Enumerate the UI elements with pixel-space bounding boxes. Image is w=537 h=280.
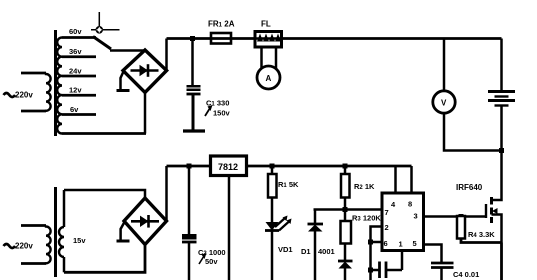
battery B (cells) (488, 92, 515, 106)
svg-text:4001: 4001 (318, 247, 335, 256)
transformer T2 core (54, 187, 57, 277)
wire battery to MOSFET drain (492, 106, 502, 201)
bridge B2 AC terminal (T bar) (117, 222, 130, 241)
wire FL to ammeter right (275, 47, 278, 68)
lower rail 7812 input (167, 165, 211, 168)
junction C1/top rail (190, 36, 195, 41)
transformer T1 secondary winding arcs (57, 38, 62, 134)
wire B2 right corner to lower rail (165, 166, 168, 221)
lower rail 7812 output (247, 165, 412, 168)
wire FL to ammeter left (260, 47, 263, 68)
wire VD2 down (314, 232, 317, 280)
svg-text:R4 3.3K: R4 3.3K (468, 230, 495, 239)
resistor R3 (341, 221, 352, 244)
label ~220v (T2 primary) (4, 244, 16, 248)
svg-text:R2 1K: R2 1K (354, 182, 375, 191)
label 50v with polarity arrow (199, 253, 207, 264)
wire pin5 to C4 (424, 245, 442, 264)
T1 tap 36v (62, 55, 96, 58)
wire pin1 down (401, 251, 404, 271)
wire rail to R1 (271, 166, 274, 174)
bridge rectifier B2 diamond (124, 198, 167, 245)
junction R1/rail (270, 164, 275, 169)
svg-text:V: V (441, 99, 447, 108)
switch S1 wiper arm (93, 37, 111, 50)
svg-text:36v: 36v (69, 47, 82, 56)
svg-text:5: 5 (413, 239, 417, 248)
svg-text:220v: 220v (15, 91, 33, 100)
LED VD1 (265, 216, 292, 231)
junction pin6/pin2 wire (368, 240, 373, 245)
junction C3/pin2 wire (368, 268, 373, 273)
wire T2 secondary top to bridge B2 (64, 190, 145, 198)
wire pin7 to VD2 column (314, 210, 317, 225)
IC U1 555 box (382, 193, 424, 251)
resistor R4 (457, 216, 465, 239)
svg-text:50v: 50v (205, 257, 218, 266)
junction battery/voltmeter wire (499, 148, 504, 153)
svg-text:60v: 60v (69, 27, 82, 36)
svg-text:6v: 6v (70, 105, 79, 114)
shunt FL box with zigzag (255, 32, 282, 48)
wire top positive rail (167, 37, 502, 40)
svg-text:6: 6 (384, 239, 388, 248)
bridge B2 internal diode (131, 215, 159, 228)
svg-text:7: 7 (385, 208, 389, 217)
svg-text:VD1: VD1 (278, 245, 293, 254)
transformer T1 primary winding (21, 73, 51, 111)
wire 7812 ground pin (228, 176, 231, 280)
svg-text:R3 120K: R3 120K (352, 214, 381, 223)
junction R2/R3/pin7 (343, 207, 348, 212)
wire pin4 to Vcc rail (394, 166, 397, 193)
svg-text:FL: FL (261, 20, 271, 29)
svg-text:R1 5K: R1 5K (278, 180, 299, 189)
capacitor C2 (electrolytic) (182, 234, 197, 280)
svg-text:A: A (266, 74, 272, 83)
svg-text:12v: 12v (69, 86, 82, 95)
svg-text:C2 1000: C2 1000 (198, 248, 226, 257)
bridge rectifier B1 diamond (123, 50, 167, 93)
T1 tap 12v (62, 94, 96, 97)
wire source down (500, 243, 503, 280)
transformer T2 secondary winding (59, 190, 64, 272)
junction R2/rail (343, 164, 348, 169)
svg-text:1: 1 (399, 240, 403, 249)
bridge B1 AC terminal (T bar) (117, 72, 130, 91)
junction C2/input rail (187, 164, 192, 169)
label ~220v (T1 primary) (4, 93, 16, 97)
regulator 7812 box (211, 156, 247, 176)
resistor R1 (268, 174, 277, 198)
wire top rail to voltmeter (443, 39, 446, 92)
svg-text:2: 2 (385, 223, 389, 232)
bridge B1 internal diode (131, 64, 159, 77)
MOSFET Q1 IRF640 (486, 197, 502, 243)
wire R4 bottom to source (461, 239, 502, 243)
T1 tap 6v (62, 113, 96, 116)
resistor R2 (341, 174, 350, 198)
ammeter A (257, 66, 280, 89)
wire top rail to battery (500, 39, 503, 92)
wire rail to R2 (344, 166, 347, 174)
wire VD1 down (271, 231, 274, 280)
svg-text:FR1 2A: FR1 2A (208, 20, 235, 29)
capacitor C3 (371, 262, 403, 279)
svg-text:8: 8 (408, 200, 412, 209)
wire R3 to D1 (344, 244, 347, 262)
junction R4/gate wire (459, 214, 464, 219)
voltmeter V (433, 91, 455, 113)
wire pin6 (371, 241, 383, 244)
wire T2 bottom to bridge B2 (64, 245, 145, 273)
capacitor C1 (electrolytic) (183, 85, 205, 131)
wire D1 down (344, 269, 347, 280)
fuse FR1 (211, 33, 231, 44)
wire R2 to junction (344, 198, 347, 222)
svg-text:150v: 150v (213, 109, 231, 118)
wire B1 right corner to top rail (165, 39, 168, 71)
wire B1 bottom corner to bottom rail (144, 93, 147, 134)
svg-text:24v: 24v (69, 67, 82, 76)
wire top rail to C1 (191, 39, 194, 86)
wire pin7 (314, 208, 383, 211)
transformer T1 core (54, 30, 57, 136)
wire voltmeter to battery bottom (444, 113, 502, 151)
label 150v with polarity arrow (205, 105, 213, 116)
svg-text:3: 3 (414, 212, 418, 221)
svg-text:220v: 220v (15, 242, 33, 251)
transformer T2 primary winding (21, 226, 51, 264)
wire pin2 (371, 227, 383, 280)
T1 tap 60v (62, 36, 96, 39)
capacitor C4 (431, 263, 454, 280)
wire switch to bridge B1 top (110, 49, 145, 52)
svg-text:C4 0.01: C4 0.01 (453, 270, 479, 279)
wire R1 to VD1 (271, 198, 274, 223)
diode VD2 (308, 224, 324, 232)
svg-text:IRF640: IRF640 (456, 183, 483, 192)
wire T1 bottom rail (62, 132, 146, 135)
T1 tap 24v (62, 75, 96, 78)
svg-text:15v: 15v (73, 236, 86, 245)
wire rail to C2 (188, 166, 191, 234)
svg-text:7812: 7812 (218, 162, 238, 172)
wire 555 pin3 to gate (424, 215, 487, 218)
selector switch S1 crosshair indicator (91, 12, 120, 34)
wire pin8 to Vcc rail (410, 166, 413, 193)
diode D1 (338, 261, 353, 269)
svg-text:D1: D1 (301, 247, 311, 256)
